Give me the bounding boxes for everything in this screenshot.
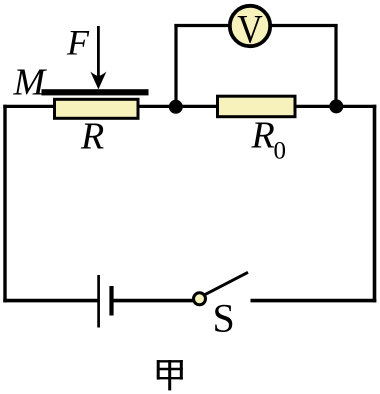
wire left vertical (3, 105, 6, 303)
svg-text:M: M (13, 62, 48, 104)
svg-text:V: V (237, 6, 263, 51)
wire voltmeter branch right vertical (334, 24, 337, 107)
wire R0 to right vertical (295, 105, 376, 108)
voltmeter V1 (230, 6, 270, 46)
wire node A to R0 (175, 105, 218, 108)
wire bottom right (251, 299, 377, 303)
svg-text:0: 0 (274, 138, 287, 165)
caption jia (CJK glyph drawn) (157, 360, 183, 390)
svg-text:F: F (66, 23, 90, 63)
switch S blade (205, 272, 248, 294)
wire top-left to R (3, 105, 55, 108)
resistor R pressure plate M (42, 89, 149, 95)
switch S pivot (194, 293, 206, 305)
node A junction dot left (169, 100, 183, 114)
wire voltmeter top right (270, 24, 338, 27)
wire battery to switch (112, 299, 194, 303)
wire voltmeter top left (174, 24, 230, 27)
svg-text:R: R (80, 116, 104, 158)
svg-text:S: S (213, 296, 235, 341)
wire bottom left (3, 299, 97, 303)
wire R to node A (138, 105, 177, 108)
battery short plate (109, 286, 113, 316)
svg-text:R: R (251, 115, 275, 157)
node B junction dot right (329, 99, 343, 113)
resistor R0 body (218, 96, 296, 117)
battery long plate (97, 275, 100, 328)
wire voltmeter branch left vertical (174, 24, 177, 107)
resistor R body (55, 99, 139, 118)
force F arrow (97, 26, 100, 78)
wire right vertical (373, 105, 377, 303)
